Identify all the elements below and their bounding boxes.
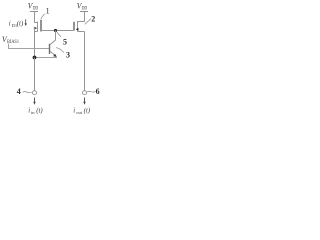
svg-text:(t): (t): [84, 108, 91, 115]
svg-text:(t): (t): [17, 21, 24, 28]
right branch wire down: [84, 32, 86, 91]
label iout(t): [73, 108, 91, 116]
terminal 4 circle: [33, 91, 37, 95]
svg-text:(t): (t): [36, 108, 43, 115]
current label iD1(t): [9, 21, 24, 29]
wire VDD to M2 drain: [84, 12, 86, 22]
gate wire M1-M2: [41, 30, 74, 32]
svg-text:DD: DD: [33, 6, 39, 12]
M1 source wire down: [34, 28, 36, 58]
svg-text:6: 6: [96, 87, 100, 96]
current arrow iin: [33, 98, 36, 105]
label iin(t): [28, 108, 43, 116]
svg-text:i: i: [9, 21, 11, 28]
svg-text:out: out: [76, 110, 83, 115]
BJT emitter arrowhead: [53, 54, 56, 57]
VDD label right: [77, 0, 88, 11]
wire VDD to M1 drain: [34, 12, 36, 24]
label 5 leader: [57, 32, 61, 37]
transistor M2 (ref 2): [74, 21, 85, 32]
svg-text:i: i: [73, 108, 75, 115]
M2 body arrow: [76, 28, 79, 31]
label 1 leader: [41, 14, 45, 20]
label 6 squiggle leader: [87, 90, 95, 93]
label 3 leader: [56, 48, 64, 53]
svg-text:1: 1: [46, 7, 50, 16]
svg-text:2: 2: [91, 15, 95, 24]
current arrow iout: [83, 98, 86, 105]
collector wire: [50, 31, 56, 45]
current arrow down (iD1): [25, 19, 27, 26]
transistor M1 (ref 1): [35, 20, 42, 32]
svg-text:DD: DD: [82, 6, 88, 12]
BJT emitter: [50, 51, 56, 56]
label 2 leader: [85, 19, 91, 25]
BJT Q3 base bar: [49, 44, 51, 54]
VBIAS1 wire to base: [9, 44, 49, 49]
emitter to left-branch wire: [35, 56, 57, 59]
svg-text:3: 3: [66, 51, 70, 60]
svg-text:i: i: [28, 108, 30, 115]
VBIAS1 label: [2, 34, 19, 45]
terminal 6 circle: [83, 91, 87, 95]
left branch wire down: [34, 58, 36, 91]
gate node dot: [54, 29, 57, 32]
node dot left branch: [33, 56, 37, 60]
svg-text:4: 4: [17, 87, 21, 96]
VDD rail bar left: [30, 11, 38, 13]
VDD label left: [28, 0, 38, 11]
label 4 squiggle leader: [23, 92, 32, 93]
svg-text:5: 5: [63, 37, 67, 46]
M1 body arrow: [34, 27, 37, 30]
VDD rail bar right: [80, 11, 88, 13]
